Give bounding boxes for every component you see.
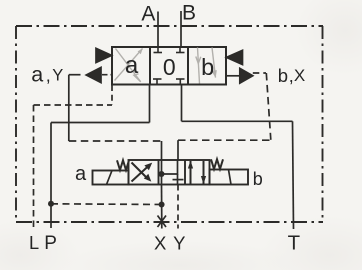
wire b,X dashed vertical [266, 73, 271, 140]
solenoid right diagonal [229, 170, 232, 185]
wire P drop from main valve [149, 85, 151, 123]
svg-text:B: B [182, 1, 196, 24]
spring W left [117, 160, 129, 170]
port line B [180, 11, 182, 47]
svg-text:a: a [75, 163, 87, 185]
pilot valve body U2 [129, 160, 210, 185]
wire pilot A up-connection [161, 141, 163, 160]
divider a/center [158, 160, 160, 185]
pilot drain triangle right-bottom [240, 68, 253, 83]
junction dot on X line [159, 202, 165, 208]
branch from dot to B [162, 160, 178, 174]
svg-text:Y: Y [52, 66, 63, 84]
wire a,Y vertical down [68, 75, 70, 141]
wire X line below pilot valve [161, 185, 163, 229]
divider center/b [184, 160, 186, 185]
wire a,Y horizontal to triangle tip [69, 74, 81, 76]
blocked port T bottom-left in 0 box [153, 79, 162, 85]
svg-text:b: b [253, 169, 263, 189]
wire T horizontal [182, 120, 293, 122]
wire pilot B up-connection [177, 140, 179, 160]
spring W right [211, 159, 223, 169]
svg-text:0: 0 [163, 54, 176, 80]
junction dot in center box [159, 171, 165, 177]
wire Y dashed below pilot valve [177, 185, 179, 229]
pilot drain triangle left-bottom [86, 67, 101, 82]
blocked port T top-right in 0 box [176, 47, 185, 53]
solenoid left diagonal [107, 171, 113, 185]
X plug mark [158, 216, 167, 228]
enclosure border bottom [16, 221, 323, 223]
enclosure border top [16, 25, 323, 27]
svg-text:b: b [201, 54, 214, 80]
svg-text:A: A [141, 2, 155, 25]
wire P horizontal [51, 122, 150, 124]
blocked port T top-left in 0 box [154, 47, 163, 53]
divider a/0 [149, 47, 151, 85]
svg-text:a: a [125, 52, 139, 79]
wire L dashed horizontal [34, 104, 113, 106]
wire T vertical to port [293, 121, 294, 229]
wire a,Y dashed horizontal to pilot valve A [69, 140, 162, 142]
stub from left drain triangle to valve (dashed) [102, 74, 112, 76]
junction dot on P line [48, 201, 54, 207]
wire T drop from main valve [181, 85, 183, 122]
blocked T bar in center box [173, 179, 184, 181]
center box through line (X supply) [161, 160, 163, 185]
solenoid right [210, 170, 249, 185]
main valve body U1 [112, 47, 226, 85]
wire L dashed vertical to port [33, 105, 35, 228]
gray crossed arrows in box a [115, 48, 143, 82]
enclosure border right [322, 26, 324, 222]
svg-text:b: b [278, 65, 288, 86]
svg-text:P: P [44, 233, 57, 254]
pilot triangle right-top (into valve) [226, 50, 242, 64]
svg-text:,: , [46, 66, 51, 86]
enclosure border left [15, 26, 17, 222]
solenoid left [93, 171, 129, 185]
dashed link P to X [51, 203, 162, 206]
wire b,X dashed horizontal to pilot valve B [178, 139, 271, 141]
blocked port T bottom-right in 0 box [176, 79, 185, 85]
gray parallel arrows in box b [196, 48, 217, 84]
svg-text:X: X [294, 66, 305, 85]
wire P vertical to port [50, 123, 52, 229]
divider 0/b [187, 47, 189, 85]
pilot triangle left-top (into valve) [96, 48, 112, 62]
port line A [157, 12, 159, 48]
wire b,X dashed from triangle tip [253, 72, 266, 74]
svg-text:a: a [31, 63, 43, 87]
crossed arrows in pilot box a [132, 163, 153, 182]
svg-text:L: L [29, 233, 39, 253]
parallel arrows in pilot box b [188, 160, 206, 184]
center box T line down [177, 174, 179, 185]
svg-text:T: T [288, 233, 300, 255]
wire L drain dashed from valve corner [111, 85, 113, 105]
svg-text:X: X [154, 233, 166, 254]
stub valve to right drain triangle [226, 75, 240, 77]
svg-text:Y: Y [173, 232, 185, 253]
